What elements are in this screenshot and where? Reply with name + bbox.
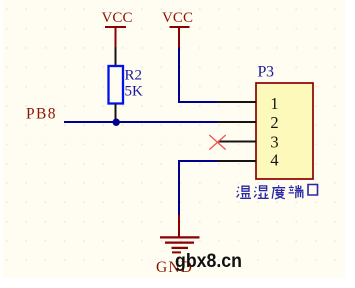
power VCC symbol (right)	[162, 10, 193, 48]
wire R2 bottom pin to PB8 net	[115, 104, 117, 123]
resistor R2	[109, 66, 124, 104]
char 温	[237, 186, 251, 198]
svg-text:P3: P3	[258, 64, 275, 81]
connector P3 body	[256, 83, 313, 179]
junction node at R2/PB8 wire	[113, 119, 120, 126]
wire pin 4 to GND corner	[179, 161, 217, 215]
char 度	[272, 185, 285, 199]
wire VCC to R2 top pin	[115, 47, 117, 66]
svg-text:1: 1	[270, 94, 278, 113]
pin 4 lead	[217, 160, 256, 162]
svg-text:2: 2	[270, 113, 278, 132]
pin 2 lead	[217, 121, 256, 123]
svg-text:VCC: VCC	[102, 10, 133, 26]
pin 3 lead	[218, 141, 256, 143]
pin 1 lead	[217, 101, 256, 103]
svg-text:5K: 5K	[125, 84, 144, 100]
svg-text:4: 4	[270, 151, 278, 170]
svg-text:PB8: PB8	[26, 106, 56, 123]
svg-text:3: 3	[270, 132, 278, 151]
label 温湿度端口 (drawn glyphs)	[237, 185, 318, 199]
char 口	[308, 185, 318, 196]
no-ERC marker X on pin 3	[209, 135, 225, 150]
svg-text:VCC: VCC	[162, 10, 193, 26]
char 湿	[254, 186, 269, 198]
power VCC symbol (left)	[102, 10, 133, 47]
wire PB8 horizontal to pin 2	[64, 121, 217, 123]
ground GND symbol	[160, 215, 200, 252]
char 端	[289, 185, 304, 198]
svg-text:R2: R2	[125, 67, 143, 83]
wire VCC right down and over to pin 1	[179, 48, 217, 103]
svg-text:gbx8.cn: gbx8.cn	[175, 251, 242, 272]
